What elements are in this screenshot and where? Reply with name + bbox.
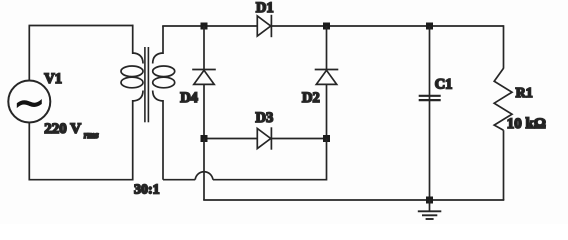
svg-text:D2: D2 (302, 90, 320, 106)
wire: primary bottom (29, 179, 134, 181)
capacitor C1 (419, 96, 441, 101)
wire: top rail left segment (secondary to D1 anode) (162, 25, 257, 27)
transformer T1 secondary winding (153, 53, 175, 101)
resistor R1 (494, 68, 512, 130)
wire: middle rail right segment (D3 cathode to right junction) (271, 138, 326, 140)
wire: hop wire right segment (213, 179, 327, 181)
svg-text:R1: R1 (516, 86, 533, 101)
wire: C1 branch upper (429, 26, 431, 96)
wire: hop wire left segment (163, 179, 195, 181)
wire: bridge negative drop (203, 139, 205, 201)
wire: primary right vertical upper (132, 25, 134, 54)
node: top-left junction dot (201, 23, 208, 30)
diode D3 (257, 127, 271, 149)
diode D2 (315, 70, 339, 85)
diode D1 (257, 15, 271, 37)
ground (418, 200, 442, 219)
wire: primary left vertical lower (28, 122, 30, 180)
source V1 (8, 81, 50, 125)
node: middle-left junction dot (201, 135, 208, 142)
node: middle-right junction dot (323, 135, 330, 142)
wire: top rail right segment (D1 cathode to top-right corner) (271, 25, 503, 27)
wire: primary top (29, 25, 134, 27)
svg-text:220 Vrms: 220 Vrms (44, 121, 99, 141)
wire: bottom rail (203, 199, 504, 201)
wire: secondary bottom lead (162, 100, 164, 180)
wire: D4 branch upper (203, 26, 205, 70)
wire: middle rail left segment (to D3 anode) (204, 138, 257, 140)
wire: R1 branch lower (503, 130, 505, 200)
diode D4 (192, 70, 216, 85)
svg-text:V1: V1 (44, 71, 62, 87)
svg-text:10 kΩ: 10 kΩ (507, 116, 546, 132)
svg-text:D4: D4 (180, 90, 198, 106)
wire: primary right vertical lower (132, 100, 134, 181)
node: top-middle junction dot (323, 23, 330, 30)
node: top-right junction dot (426, 23, 433, 30)
svg-text:D1: D1 (256, 0, 274, 16)
wire: D2 branch lower (326, 84, 328, 138)
wire: D2 branch upper (326, 26, 328, 70)
node: bottom junction dot (426, 197, 433, 204)
wire: R1 branch upper (503, 25, 505, 68)
wire: C1 branch lower (429, 100, 431, 200)
wire: D4 branch lower (203, 84, 205, 138)
transformer core (145, 47, 149, 122)
wire: primary left vertical upper (28, 26, 30, 81)
svg-text:C1: C1 (435, 76, 453, 92)
svg-text:30:1: 30:1 (134, 183, 160, 198)
transformer T1 primary winding (121, 53, 143, 101)
svg-text:∼: ∼ (13, 82, 45, 124)
wire: hop over D4 branch (195, 172, 213, 180)
wire: secondary top lead (162, 26, 164, 54)
svg-text:D3: D3 (256, 110, 274, 126)
wire: hop wire rise to middle-right junction (326, 139, 328, 181)
